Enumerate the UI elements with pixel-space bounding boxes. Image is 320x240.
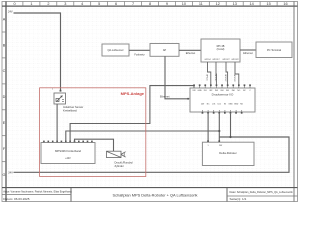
svg-text:LO1: LO1 — [212, 104, 216, 106]
svg-text:GPIO4: GPIO4 — [204, 59, 211, 61]
svg-text:Ethernet: Ethernet — [243, 52, 253, 55]
svg-text:11: 11 — [199, 2, 203, 6]
svg-text:QA-Luftsensor: QA-Luftsensor — [107, 49, 123, 52]
I/O bottom pins — [202, 110, 243, 114]
svg-text:IN4: IN4 — [221, 90, 224, 92]
junction at 230/137 — [229, 136, 231, 138]
wire GPIO22 RPi pin4 to I/O — [233, 62, 239, 85]
svg-text:G: G — [3, 173, 6, 177]
svg-text:GPIO17: GPIO17 — [214, 74, 216, 82]
svg-text:IN3: IN3 — [215, 90, 218, 92]
svg-text:15: 15 — [266, 2, 270, 6]
Foerderband top pins — [43, 141, 93, 143]
wire Ethernet AP down to Drucksensor I/O — [160, 56, 189, 99]
svg-text:24V: 24V — [8, 171, 13, 175]
border frame outer — [2, 2, 298, 202]
svg-text:6: 6 — [115, 2, 117, 6]
svg-text:4: 4 — [81, 2, 83, 6]
wire Foerderband valve pin to cylinder — [75, 139, 114, 151]
svg-text:Datei: Schaltplan_Delta_Robote: Datei: Schaltplan_Delta_Roboter_MPS_QA_L… — [230, 191, 294, 194]
svg-text:Seite(n): 1/1: Seite(n): 1/1 — [230, 197, 247, 201]
svg-text:AP: AP — [163, 49, 167, 52]
wire Ethernet access point to RPi — [179, 50, 201, 55]
svg-text:GND: GND — [234, 104, 239, 106]
svg-text:9: 9 — [166, 2, 168, 6]
wire sensor to Foerderband — [56, 104, 58, 143]
svg-text:IN5: IN5 — [226, 90, 229, 92]
svg-text:GPIO27: GPIO27 — [224, 74, 226, 82]
svg-text:E: E — [3, 121, 6, 125]
svg-text:13: 13 — [233, 2, 237, 6]
svg-text:B: B — [3, 43, 6, 47]
wire I/O pin to Delta Roboter pin2 — [218, 114, 220, 141]
svg-text:A: A — [3, 17, 6, 21]
wire Funk link QA-Luftsensor to access point — [129, 50, 150, 56]
pneumatic cylinder symbol — [107, 151, 126, 157]
box MPS326 Foerderband — [41, 143, 95, 164]
box sensor module QA-Luftsensor — [102, 44, 129, 56]
svg-text:GND: GND — [197, 90, 202, 92]
svg-text:7: 7 — [132, 2, 134, 6]
wire GND return loop right and across bottom — [14, 137, 290, 172]
I/O top pins — [193, 84, 251, 88]
svg-text:GND: GND — [228, 104, 233, 106]
svg-text:12: 12 — [216, 2, 220, 6]
svg-text:GPIO17: GPIO17 — [212, 59, 220, 61]
svg-text:GPIO22: GPIO22 — [231, 59, 239, 61]
I/O bottom pin labels — [201, 104, 244, 106]
label cylinder — [115, 160, 134, 168]
svg-text:IN2: IN2 — [209, 90, 212, 92]
wire I/O pin to Delta Roboter pin1 — [207, 114, 209, 141]
svg-text:Druckl./Rundzyl: Druckl./Rundzyl — [115, 160, 134, 164]
svg-text:MPS-Anlage: MPS-Anlage — [121, 91, 145, 96]
Delta Roboter top pins — [207, 140, 220, 142]
svg-text:IN1: IN1 — [204, 90, 207, 92]
svg-text:2: 2 — [47, 2, 49, 6]
label inductive sensor — [63, 105, 83, 113]
svg-text:1: 1 — [30, 2, 32, 6]
title block — [2, 188, 298, 202]
svg-text:0: 0 — [13, 2, 15, 6]
svg-text:C: C — [3, 69, 6, 73]
node 24V net label top left — [8, 10, 13, 14]
svg-text:14: 14 — [249, 2, 253, 6]
svg-text:8: 8 — [149, 2, 151, 6]
svg-text:Schaltplan MPS Delta-Roboter +: Schaltplan MPS Delta-Roboter + QA Luftse… — [113, 192, 198, 197]
svg-text:GPIO4: GPIO4 — [205, 74, 207, 81]
column labels 0-16 — [13, 2, 287, 7]
svg-text:24V: 24V — [8, 10, 13, 14]
svg-text:Zylinder: Zylinder — [115, 164, 124, 168]
svg-text:+24V: +24V — [65, 158, 71, 160]
svg-text:3: 3 — [64, 2, 66, 6]
node GND net label bottom left — [8, 171, 13, 175]
box Drucksensor I/O module — [190, 88, 255, 112]
svg-text:1: 1 — [207, 145, 208, 147]
svg-text:Induktiver Sensor: Induktiver Sensor — [63, 105, 83, 109]
red group box MPS-Anlage — [40, 88, 146, 177]
I/O top pin labels — [192, 90, 251, 92]
border frame inner lines — [2, 2, 298, 202]
svg-text:5: 5 — [98, 2, 100, 6]
junction at 219/131 — [218, 130, 220, 132]
box PC Terminal — [256, 42, 292, 58]
svg-text:16: 16 — [283, 2, 287, 6]
box RPi 4B controller U1 — [201, 39, 240, 62]
wire GPIO17 RPi pin2 to I/O — [214, 62, 216, 85]
svg-text:MPS326 Förderband: MPS326 Förderband — [55, 149, 81, 153]
wire Ethernet RPi to PC — [240, 50, 256, 55]
svg-text:Delta-Roboter: Delta-Roboter — [219, 151, 236, 155]
svg-text:(Coral): (Coral) — [217, 48, 225, 51]
wire Foerderband to I/O long horizontal — [66, 131, 220, 143]
svg-text:Ethernet: Ethernet — [186, 52, 196, 55]
svg-text:10: 10 — [182, 2, 186, 6]
wire GPIO27 RPi pin3 to I/O — [224, 62, 228, 85]
box access point AP — [150, 44, 179, 57]
svg-text:Ethernet: Ethernet — [160, 96, 170, 99]
svg-text:LD1: LD1 — [218, 104, 221, 106]
row labels A-G — [2, 17, 6, 177]
svg-text:Drucksensor I/O: Drucksensor I/O — [212, 93, 234, 97]
I/O left pin — [187, 98, 190, 100]
svg-text:Autor: Vorname Nachname, Patri: Autor: Vorname Nachname, Patrick Niemetz… — [3, 191, 72, 194]
svg-text:IN6: IN6 — [232, 90, 235, 92]
wire Foerderband sensor out to I/O pin (up over) — [70, 86, 194, 143]
svg-text:GPIO22: GPIO22 — [233, 74, 235, 82]
svg-text:Datum: 06.03.2025: Datum: 06.03.2025 — [3, 197, 30, 201]
wire 24V feed: horizontal then down to inductive sensor — [14, 13, 61, 91]
inductive sensor B1 — [52, 89, 66, 104]
svg-text:GPIO27: GPIO27 — [222, 59, 230, 61]
svg-text:PC Terminal: PC Terminal — [267, 48, 282, 52]
wire GPIO4 RPi pin1 to I/O — [205, 62, 211, 85]
svg-text:Funknetz: Funknetz — [134, 53, 145, 56]
box Delta Roboter — [202, 142, 254, 165]
wire I/O GND pin down — [230, 114, 232, 137]
svg-text:D: D — [3, 95, 6, 99]
svg-text:Kreiselband: Kreiselband — [63, 109, 77, 113]
